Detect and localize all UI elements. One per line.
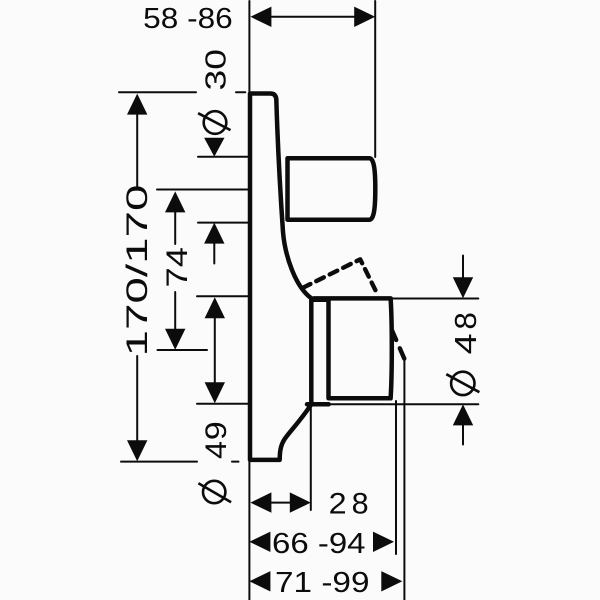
sleeve ring bottom edge [307, 402, 329, 407]
diameter symbol for 49 [198, 481, 231, 503]
svg-text:2: 2 [329, 488, 347, 521]
svg-text:4: 4 [200, 441, 233, 459]
dim line 58-86 [270, 16, 355, 18]
svg-text:9: 9 [200, 421, 233, 440]
dim line 74 segments [174, 212, 176, 329]
extension line plate left bottom [248, 462, 250, 600]
handle centerline extension [157, 189, 248, 191]
handle lever [288, 158, 376, 219]
arrow 66-94 left [249, 532, 270, 552]
arrow 58-86 left [250, 7, 271, 27]
arrow 74 down [165, 329, 185, 350]
arrow Ø48 up [453, 404, 473, 425]
svg-text:71 -99: 71 -99 [275, 567, 370, 599]
arrow Ø30 down [204, 138, 224, 157]
dim line 170/170 segments [136, 114, 138, 441]
svg-text:58 -86: 58 -86 [143, 3, 233, 35]
svg-text:8: 8 [448, 312, 483, 330]
arrow 58-86 right [354, 7, 375, 27]
diameter symbol for 48 [446, 372, 479, 395]
arrow 170/170 down [127, 440, 147, 461]
svg-text:66 -94: 66 -94 [272, 528, 366, 560]
arrow 71-99 left [249, 571, 270, 591]
valve body cylinder [314, 298, 392, 398]
sleeve bottom extension line [197, 403, 249, 405]
plate bottom extension line [121, 461, 239, 463]
sleeve top extension line [197, 295, 249, 297]
dim line 28 [270, 502, 291, 504]
handle top extension line [198, 156, 248, 158]
svg-text:74: 74 [161, 247, 194, 288]
svg-text:8: 8 [352, 488, 369, 521]
arrow 74 up [165, 191, 185, 212]
sleeve ring top edge [311, 297, 328, 302]
diameter symbol for 30 [198, 111, 230, 134]
dim line Ø49 [214, 317, 216, 383]
extension line valve face bottom [395, 401, 397, 554]
svg-text:170/170: 170/170 [121, 185, 154, 357]
handle bottom extension line [198, 222, 248, 224]
arrow 66-94 right [373, 532, 394, 552]
arrow 28 right [290, 492, 311, 512]
arrow 170/170 up [127, 94, 147, 115]
arrow Ø49 down [205, 382, 225, 403]
arrow 28 left [250, 492, 271, 512]
valve bottom extension to right [329, 403, 479, 405]
svg-text:4: 4 [448, 333, 483, 354]
escutcheon plate outline [250, 94, 311, 460]
valve centerline extension [158, 349, 208, 351]
dim line Ø48 tails [462, 256, 464, 445]
extension line right of top dim [374, 1, 376, 157]
dim line Ø30 lower tail [213, 244, 215, 264]
extension line left of top dim [248, 1, 250, 92]
dashed rotated lever down position tip [392, 330, 404, 358]
valve top extension to right [392, 298, 478, 300]
arrow 71-99 right [381, 571, 402, 591]
plate top extension line [119, 91, 245, 93]
arrow Ø48 down [453, 277, 473, 298]
extension line dashed tip bottom [403, 359, 405, 600]
extension line ring front bottom [310, 407, 312, 511]
arrow Ø49 up [205, 297, 225, 318]
arrow Ø30 up [204, 223, 224, 244]
svg-text:30: 30 [201, 49, 233, 91]
dashed rotated lever up position [303, 259, 378, 294]
